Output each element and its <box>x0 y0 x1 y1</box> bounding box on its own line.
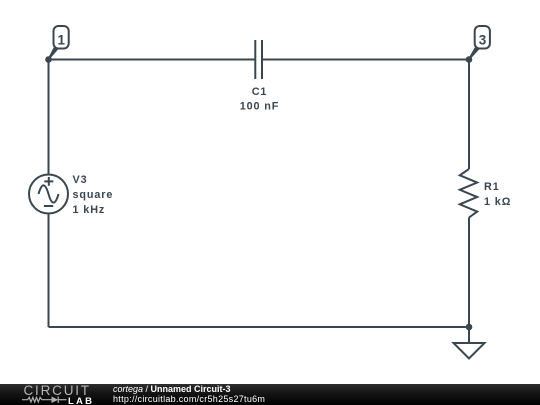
capacitor C1 <box>255 40 262 79</box>
plus sign <box>44 180 53 182</box>
wire left upper (node1 down to V3 top) <box>48 60 50 175</box>
wire right upper (node3 down to R1 top) <box>468 60 470 170</box>
minus sign <box>44 205 53 207</box>
svg-text:LAB: LAB <box>68 396 94 405</box>
footer bar <box>0 384 540 405</box>
wire bottom rail <box>49 326 470 328</box>
wire left lower (V3 bottom down to bottom rail) <box>48 214 50 328</box>
wire top right (C1 right plate to node3) <box>262 59 469 61</box>
svg-text:C1: C1 <box>252 86 268 98</box>
sine wave <box>39 185 59 202</box>
node 3 tag <box>475 26 490 49</box>
node 1 tag pointer <box>48 46 60 60</box>
resistor R1 <box>460 169 477 218</box>
svg-text:3: 3 <box>479 32 487 47</box>
logo squiggle: wire resistor diode <box>22 397 67 404</box>
svg-text:1 kΩ: 1 kΩ <box>484 196 511 208</box>
footer credit text <box>113 385 265 404</box>
svg-text:1: 1 <box>58 32 66 47</box>
voltage source V3 <box>29 175 68 214</box>
junction dot node 1 <box>45 56 52 63</box>
node 1 tag <box>54 26 69 49</box>
svg-text:R1: R1 <box>484 181 500 193</box>
node 3 tag pointer <box>469 46 481 60</box>
svg-text:square: square <box>73 189 114 201</box>
svg-text:V3: V3 <box>73 174 88 186</box>
junction dot ground <box>466 324 473 331</box>
svg-text:1 kHz: 1 kHz <box>73 204 106 216</box>
svg-text:100 nF: 100 nF <box>240 101 280 113</box>
wire right lower (R1 bottom down to bottom rail) <box>468 218 470 328</box>
wire ground stub <box>468 327 470 343</box>
ground <box>454 343 485 359</box>
wire top left (node1 to C1 left plate) <box>49 59 256 61</box>
CircuitLab logo <box>0 384 110 405</box>
junction dot node 3 <box>466 56 473 63</box>
